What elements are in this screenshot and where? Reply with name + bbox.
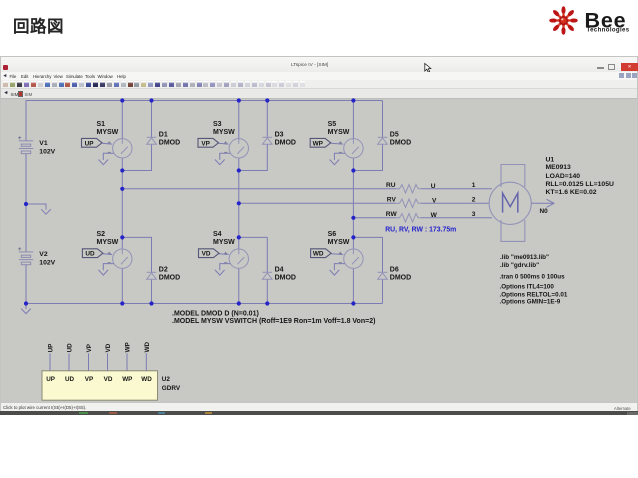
switch S1 <box>108 139 132 158</box>
ground (arrow flag) at S6 <box>330 264 345 276</box>
wire: phase U line <box>122 188 492 190</box>
switch S3 <box>224 139 248 158</box>
label S2 MYSW <box>97 231 119 246</box>
wire: phase V line <box>239 202 489 204</box>
ground (arrow flag) at S5 <box>330 153 345 165</box>
wire: D1 branch <box>122 101 151 171</box>
diode D3 <box>263 137 273 144</box>
wire: U2 pin UP <box>49 353 51 371</box>
ground (arrow) mid-left <box>41 209 51 214</box>
wire: left source column <box>25 101 27 304</box>
wire: S4 column (to bottom rail) <box>238 268 240 303</box>
wire: motor output to N0 <box>531 199 554 207</box>
wire: U2 pin VP <box>88 353 90 371</box>
wire: S3 column (top rail to phase node) <box>238 101 240 250</box>
diode D6 <box>378 272 388 279</box>
wire: mid-left ground stub <box>26 204 46 210</box>
ground (arrow flag) at S3 <box>215 153 230 165</box>
wire: D5 branch <box>353 101 382 171</box>
ground (arrow flag) at S1 <box>99 153 114 165</box>
label D1 DMOD <box>159 132 180 147</box>
label D3 DMOD <box>275 132 296 147</box>
label V1 102V <box>39 140 55 155</box>
title bar <box>1 57 637 72</box>
label S4 MYSW <box>213 231 235 246</box>
net flag WD (S6 gate) <box>311 249 344 258</box>
wire: U2 pin VD <box>107 353 109 371</box>
label V2 102V <box>39 251 55 266</box>
wire: U2 pin UD <box>68 353 70 371</box>
label S5 MYSW <box>328 121 350 136</box>
wire: bottom-left ground stem <box>25 304 27 310</box>
ground (arrow flag) at S2 <box>99 264 114 276</box>
wire: D3 branch <box>239 101 267 171</box>
net flag UP (S1 gate) <box>82 138 113 147</box>
resistor RV <box>396 199 421 207</box>
net flag VP (S3 gate) <box>198 138 229 147</box>
label D4 DMOD <box>275 267 296 282</box>
label S6 MYSW <box>328 231 350 246</box>
ground (arrow) bottom-left <box>21 309 31 314</box>
close <box>621 63 638 71</box>
slide title 回路図 <box>13 13 64 37</box>
switch S5 <box>339 139 363 158</box>
voltage source V2 102V <box>18 247 33 264</box>
switch S4 <box>224 249 248 268</box>
label S3 MYSW <box>213 121 235 136</box>
directive .MODEL lines <box>172 310 375 325</box>
wire: top positive rail <box>26 100 383 102</box>
status bar <box>1 402 637 412</box>
switch S2 <box>108 249 132 268</box>
wire: S1 column (top rail to phase node) <box>121 101 123 250</box>
voltage source V1 102V <box>18 136 33 153</box>
wire: S5 column (top rail to phase node) <box>352 101 354 250</box>
net flag VD (S4 gate) <box>199 249 229 258</box>
wire: S2 column (to bottom rail) <box>121 268 123 303</box>
net flag WP (S5 gate) <box>310 138 343 147</box>
wire: bottom negative rail <box>26 303 383 305</box>
app icon <box>3 65 8 70</box>
directive .lib/.tran/.Options block <box>500 254 568 306</box>
diode D2 <box>147 272 157 279</box>
junction dots <box>24 98 356 305</box>
net flag UD (S2 gate) <box>82 249 112 258</box>
wire: D4 branch <box>239 237 267 303</box>
mouse cursor <box>424 63 434 75</box>
motor U1 ME0913 <box>489 165 531 242</box>
ground (arrow flag) at S4 <box>215 264 230 276</box>
schematic canvas <box>1 99 637 402</box>
label D6 DMOD <box>390 267 411 282</box>
diode D5 <box>378 137 388 144</box>
label U1 parameter block <box>546 156 614 196</box>
svg-text:Technologies: Technologies <box>587 27 630 34</box>
diode D4 <box>263 272 273 279</box>
tab bar <box>1 89 637 99</box>
wire: phase W line <box>353 217 492 219</box>
minimize <box>597 67 604 69</box>
LTspice window <box>0 56 638 411</box>
wire: S6 column (to bottom rail) <box>352 268 354 303</box>
wire: U2 pin WD <box>145 353 147 371</box>
wire: D2 branch <box>122 237 151 303</box>
resistor RW <box>396 214 421 222</box>
resistor RU <box>396 185 421 193</box>
diode D1 <box>147 137 157 144</box>
toolbar <box>1 80 637 89</box>
wire: D6 branch <box>353 237 382 303</box>
label S1 MYSW <box>97 121 119 136</box>
switch S6 <box>339 249 363 268</box>
wire: U2 pin WP <box>126 353 128 371</box>
label D5 DMOD <box>390 132 411 147</box>
label D2 DMOD <box>159 267 180 282</box>
Bee Technologies logo star <box>567 18 578 22</box>
gate driver U2 GDRV <box>42 371 181 400</box>
menu bar <box>1 72 637 80</box>
windows taskbar strip <box>0 411 638 415</box>
maximize <box>608 64 615 70</box>
